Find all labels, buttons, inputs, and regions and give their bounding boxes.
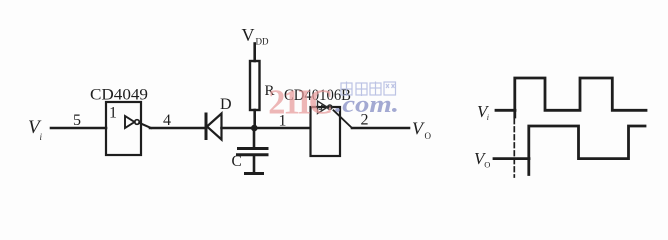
wire VDD to resistor — [253, 44, 256, 62]
capacitor C top plate — [239, 147, 268, 150]
svg-text:5: 5 — [73, 112, 81, 129]
diode D triangle — [207, 114, 222, 140]
svg-text:1: 1 — [109, 105, 117, 122]
svg-text:DD: DD — [256, 37, 269, 47]
svg-text:4: 4 — [163, 112, 171, 129]
op-amp U2 CD40106B box — [311, 107, 341, 156]
svg-text:CD4049: CD4049 — [90, 87, 148, 104]
wire capacitor to ground — [253, 155, 256, 173]
schmitt trigger triangle U2 — [318, 101, 328, 114]
op-amp U1 CD4049 box — [106, 102, 141, 155]
waveform group — [494, 78, 646, 177]
watermark CJK 电子工程网 — [341, 82, 396, 97]
ground — [246, 172, 263, 175]
svg-text:i: i — [487, 113, 489, 122]
wire U2 output to Vo — [352, 127, 409, 130]
waveform Vi trace — [515, 78, 646, 117]
svg-text:21IC: 21IC — [268, 83, 331, 121]
capacitor C bottom plate — [238, 153, 268, 156]
dashed timing line — [513, 119, 515, 177]
svg-text:O: O — [484, 160, 490, 170]
trigger bubble U2 — [328, 105, 332, 109]
svg-text:.com.: .com. — [335, 92, 399, 118]
schmitt hysteresis mark U2 — [319, 105, 324, 109]
wire node to capacitor — [253, 128, 256, 148]
wire Vi input — [51, 127, 106, 130]
svg-text:V: V — [242, 25, 255, 45]
watermark .com. script — [335, 92, 399, 118]
wire U1 output to diode — [150, 127, 206, 130]
resistor R body — [250, 61, 260, 110]
svg-text:O: O — [425, 131, 432, 141]
inverter triangle U1 — [125, 116, 135, 128]
watermark 21IC — [268, 83, 331, 121]
waveform Vo trace — [529, 126, 645, 175]
wire resistor to node — [253, 110, 256, 128]
wire Vi waveform stub — [496, 109, 515, 112]
svg-text:D: D — [220, 96, 232, 113]
wire diagonal U2 output — [334, 110, 353, 128]
diode D cathode bar — [205, 114, 208, 139]
svg-text:C: C — [232, 153, 242, 170]
wire diagonal U1 output — [139, 123, 151, 128]
junction node dot — [251, 125, 258, 132]
inverter bubble U1 — [135, 120, 140, 125]
wire Vo waveform stub — [494, 157, 529, 160]
wire diode to node to U2 — [222, 127, 311, 130]
